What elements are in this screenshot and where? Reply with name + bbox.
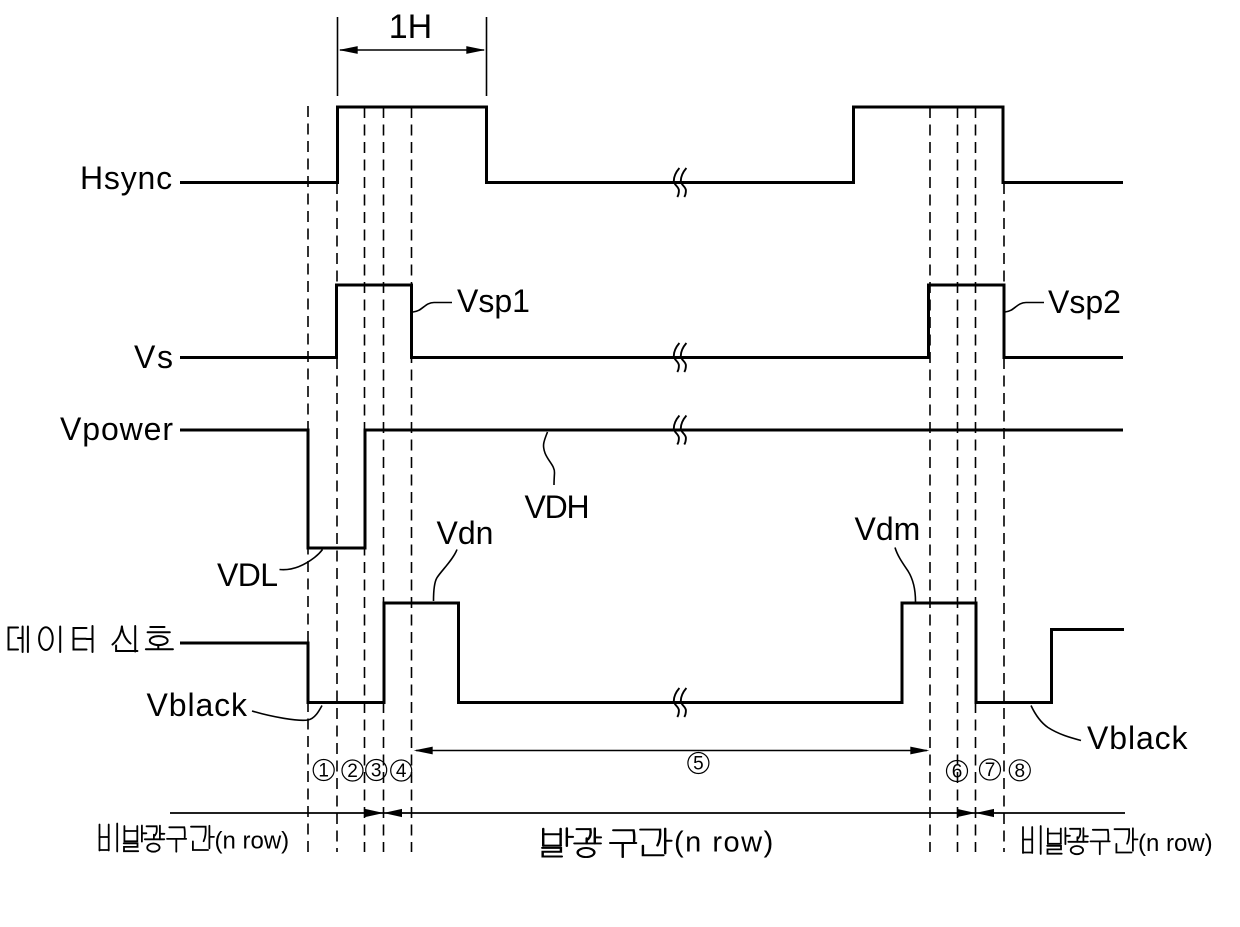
svg-text:1H: 1H bbox=[389, 8, 432, 46]
svg-text:Hsync: Hsync bbox=[80, 160, 173, 196]
svg-text:(n row): (n row) bbox=[1138, 830, 1213, 857]
svg-text:VDL: VDL bbox=[217, 557, 277, 593]
svg-text:Vblack: Vblack bbox=[1087, 720, 1189, 756]
svg-text:Vs: Vs bbox=[134, 339, 175, 375]
svg-text:(n row): (n row) bbox=[674, 827, 775, 859]
svg-text:2: 2 bbox=[347, 761, 358, 782]
svg-text:Vsp1: Vsp1 bbox=[457, 283, 530, 319]
svg-text:Vblack: Vblack bbox=[147, 687, 249, 723]
svg-text:8: 8 bbox=[1015, 761, 1026, 782]
svg-text:Vsp2: Vsp2 bbox=[1048, 284, 1121, 320]
svg-text:Vpower: Vpower bbox=[60, 411, 174, 447]
svg-text:3: 3 bbox=[371, 761, 382, 782]
svg-text:1: 1 bbox=[318, 761, 329, 782]
svg-text:Vdm: Vdm bbox=[855, 511, 921, 547]
svg-text:VDH: VDH bbox=[525, 489, 589, 525]
svg-text:5: 5 bbox=[693, 754, 704, 775]
svg-text:Vdn: Vdn bbox=[437, 515, 494, 551]
svg-text:(n row): (n row) bbox=[215, 828, 290, 855]
svg-text:4: 4 bbox=[396, 761, 407, 782]
svg-text:6: 6 bbox=[952, 762, 963, 783]
svg-text:7: 7 bbox=[985, 760, 996, 781]
